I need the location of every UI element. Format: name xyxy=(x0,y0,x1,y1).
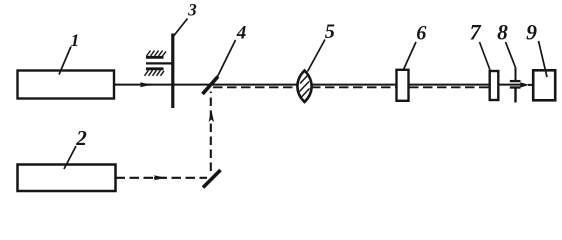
label 8 xyxy=(497,25,507,39)
pointer line 6 xyxy=(404,42,417,70)
label 9 xyxy=(526,25,536,39)
pointer line 7 xyxy=(480,42,491,70)
folding mirror bottom xyxy=(203,170,221,188)
lens 5 hatch xyxy=(300,76,310,98)
beamsplitter 4 plate xyxy=(203,77,219,95)
pointer line 2 xyxy=(64,146,76,169)
element 8 top stem xyxy=(515,68,517,81)
element 8 top plate xyxy=(510,80,521,82)
arrowhead vertical up xyxy=(209,110,214,123)
pointer line 4 xyxy=(217,40,236,78)
mirror 3 vertical plate xyxy=(171,34,174,109)
lens 5 xyxy=(297,71,311,103)
box 9 xyxy=(533,70,555,100)
label 5 xyxy=(325,24,334,37)
arrowhead on beam 1 xyxy=(140,82,152,87)
element 8 bottom stem xyxy=(514,88,516,103)
pointer line 8 xyxy=(506,42,516,68)
pointer line 9 xyxy=(539,41,548,77)
pointer line 5 xyxy=(308,40,326,72)
mount middle connector of 3 xyxy=(146,62,172,64)
plate 7 xyxy=(490,71,499,100)
label 6 xyxy=(417,26,426,39)
label 1 xyxy=(71,34,78,46)
mount hatch above xyxy=(147,51,167,56)
wire dashed beam after beamsplitter xyxy=(213,86,490,88)
label 2 xyxy=(76,131,86,145)
mount bottom bar of 3 xyxy=(146,67,164,70)
box 6 xyxy=(397,70,409,101)
laser box 2 xyxy=(18,165,116,192)
mount hatch below xyxy=(145,70,165,76)
element 8 bottom plate xyxy=(510,86,521,88)
label 7 xyxy=(470,25,481,40)
pointer line 3 xyxy=(173,19,188,38)
label 4 xyxy=(237,26,246,39)
laser box 1 xyxy=(18,71,115,99)
wire main solid beam axis xyxy=(114,84,490,86)
arrowhead into box 9 xyxy=(520,82,529,87)
pointer line 1 xyxy=(59,47,71,75)
mount top bar of 3 xyxy=(146,56,164,59)
label 3 xyxy=(188,4,196,16)
wire dashed beam from laser 2 xyxy=(116,177,208,179)
arrowhead on beam 2 xyxy=(154,175,166,180)
wire stub into box 9 xyxy=(528,84,533,86)
wire segment 7 to 8 xyxy=(499,84,521,86)
wire vertical dashed beam xyxy=(210,92,212,172)
